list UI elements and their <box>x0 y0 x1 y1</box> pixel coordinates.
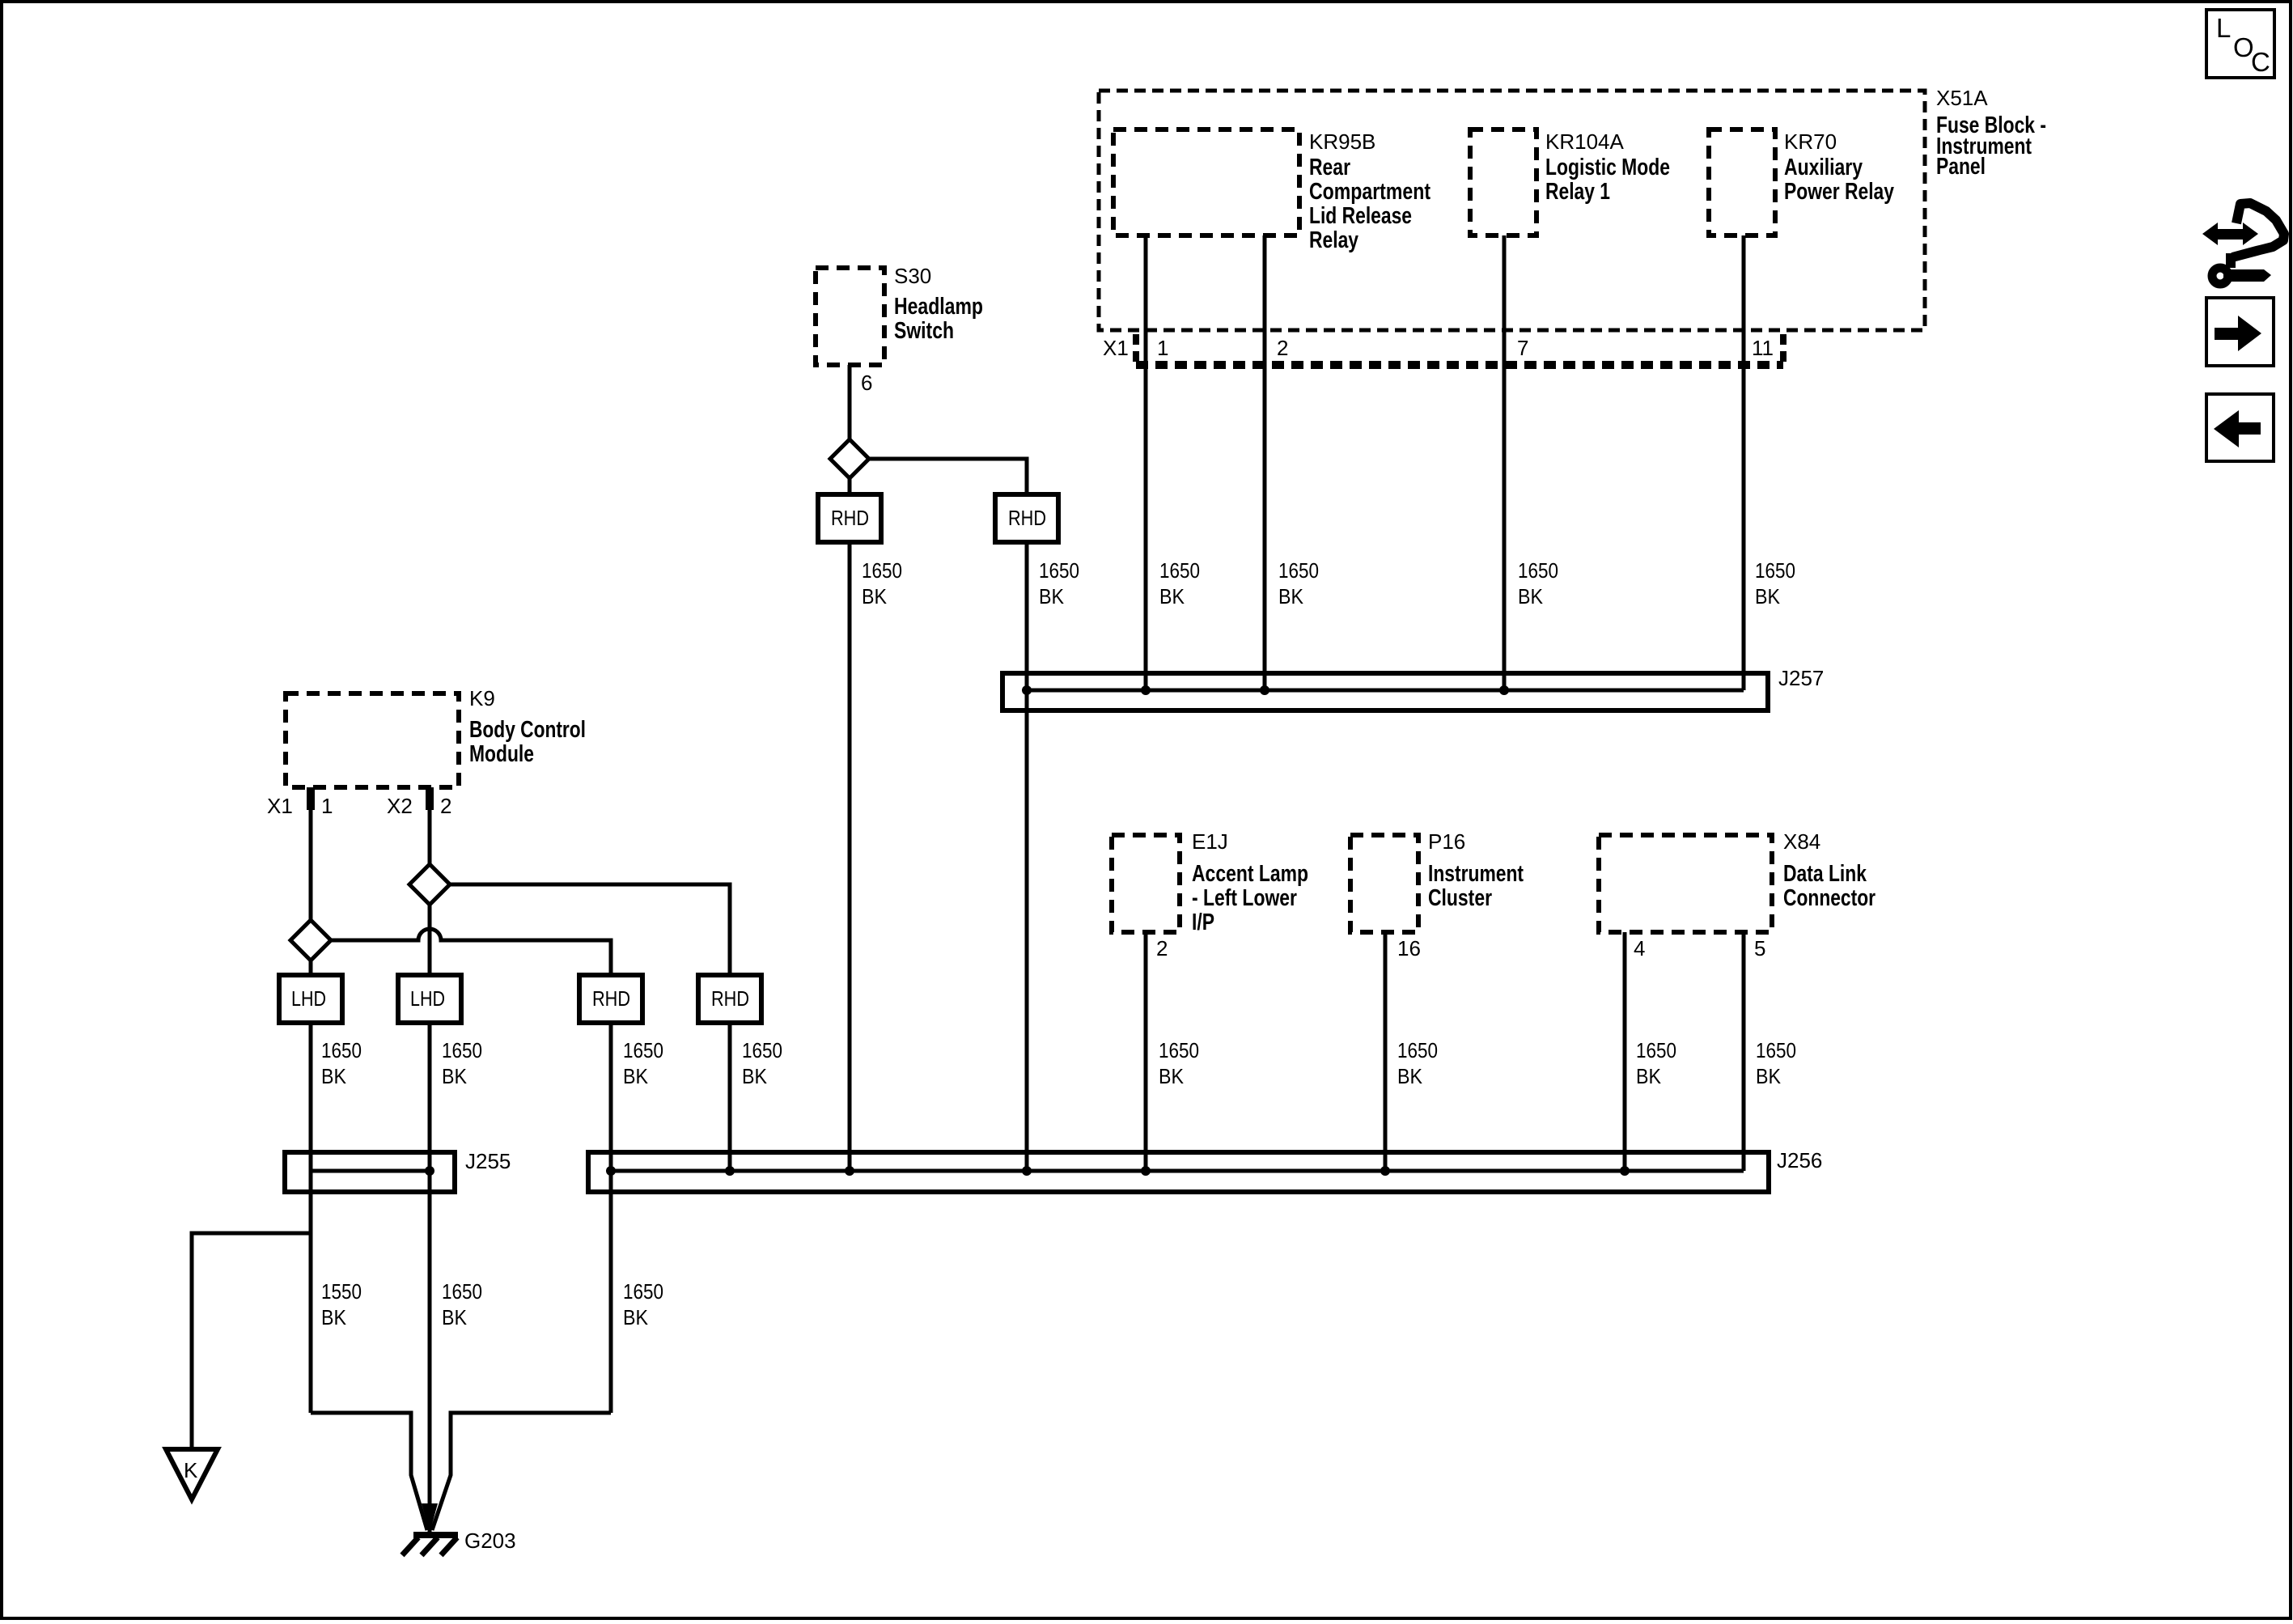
relay KR104A label <box>1545 129 1670 205</box>
wire label 1650 BK (RHD3) <box>623 1038 663 1088</box>
svg-text:J257: J257 <box>1778 666 1824 690</box>
body control module K9 dashed box <box>286 693 459 787</box>
svg-text:Compartment: Compartment <box>1309 179 1430 205</box>
wire label 1650 BK (KR95B pin1) <box>1159 558 1200 608</box>
wire label 1650 BK (E1J) <box>1159 1038 1199 1088</box>
svg-text:BK: BK <box>442 1064 468 1088</box>
svg-text:Auxiliary: Auxiliary <box>1784 155 1863 180</box>
svg-text:X2: X2 <box>387 794 413 818</box>
wire label 1650 BK (X84 pin5) <box>1756 1038 1796 1088</box>
wire label 1650 BK (X84 pin4) <box>1636 1038 1676 1088</box>
legend LOC box <box>2206 10 2274 78</box>
svg-text:1650: 1650 <box>1278 558 1319 583</box>
svg-text:1: 1 <box>1157 336 1168 360</box>
body control module K9 label <box>469 686 586 767</box>
wire KR104A pin7 to J257 <box>1503 235 1507 690</box>
splice diamond on K9 wire 1 <box>290 920 331 960</box>
svg-text:Lid Release: Lid Release <box>1309 203 1412 229</box>
svg-text:1650: 1650 <box>862 558 902 583</box>
svg-text:4: 4 <box>1634 936 1645 960</box>
data link connector X84 dashed box <box>1599 835 1772 932</box>
headlamp switch S30 label <box>894 264 983 344</box>
svg-text:Cluster: Cluster <box>1428 885 1492 911</box>
page reference K triangle <box>166 1449 218 1499</box>
svg-text:J256: J256 <box>1777 1148 1822 1172</box>
svg-text:2: 2 <box>1156 936 1168 960</box>
svg-text:BK: BK <box>742 1064 768 1088</box>
svg-text:I/P: I/P <box>1192 910 1214 935</box>
K9 pin labels X1 1 X2 2 <box>267 794 451 818</box>
wire LHD2 to J255 and down to ground tip <box>428 1021 432 1532</box>
wire label 1650 BK (RHD1) <box>862 558 902 608</box>
wire RHD1 down to J256 <box>848 541 852 1171</box>
wire KR70 pin11 to J257 <box>1742 235 1746 690</box>
svg-text:Body Control: Body Control <box>469 717 586 743</box>
back arrow box <box>2206 394 2274 461</box>
svg-text:RHD: RHD <box>592 986 630 1011</box>
relay KR104A dashed box <box>1470 129 1536 235</box>
svg-text:KR95B: KR95B <box>1309 129 1375 154</box>
svg-text:X51A: X51A <box>1936 86 1988 110</box>
wire K9 X1-1 down to splice diamond <box>309 787 313 922</box>
svg-text:1650: 1650 <box>1039 558 1079 583</box>
connector pin tick (K9 X2 pin 2) <box>426 787 434 810</box>
svg-text:X84: X84 <box>1783 829 1820 854</box>
wire K9 X2-2 down to splice diamond <box>428 787 432 866</box>
wire diamond2 to LHD2 (passes under hop) <box>428 903 432 977</box>
wire branch to K page reference <box>192 1233 311 1449</box>
svg-text:BK: BK <box>862 584 888 608</box>
svg-text:X1: X1 <box>267 794 293 818</box>
wire left elbow into ground <box>311 1413 427 1530</box>
svg-text:Connector: Connector <box>1783 885 1876 911</box>
svg-text:RHD: RHD <box>1008 506 1046 530</box>
junction dot (J256 / RHD1) <box>845 1166 854 1176</box>
junction dot (J256 / RHD3) <box>606 1166 616 1176</box>
junction dot (J255 / wire2) <box>425 1166 434 1176</box>
svg-text:Relay 1: Relay 1 <box>1545 179 1610 205</box>
fuse block X51A label <box>1936 86 2046 180</box>
svg-text:1650: 1650 <box>442 1038 482 1062</box>
svg-text:BK: BK <box>1159 1064 1185 1088</box>
wire KR95B pin2 to J257 <box>1263 235 1267 690</box>
wire label 1650 BK (KR95B pin2) <box>1278 558 1319 608</box>
svg-text:BK: BK <box>321 1064 347 1088</box>
svg-text:BK: BK <box>1039 584 1065 608</box>
forward arrow box <box>2206 298 2274 366</box>
wire label 1650 BK (P16) <box>1397 1038 1438 1088</box>
wire label 1650 BK (KR104A) <box>1518 558 1558 608</box>
option box RHD 1 <box>818 494 881 542</box>
svg-text:5: 5 <box>1754 936 1765 960</box>
svg-text:Power Relay: Power Relay <box>1784 179 1894 205</box>
connector X1 of fuse block (dashed row) <box>1136 334 1783 365</box>
svg-text:1650: 1650 <box>1636 1038 1676 1062</box>
splice pack J256 bar <box>588 1152 1769 1192</box>
wire X84 pin5 to J256 <box>1742 932 1746 1171</box>
svg-text:L: L <box>2216 13 2231 43</box>
svg-text:BK: BK <box>1159 584 1185 608</box>
wire label 1650 BK (right ground wire) <box>623 1279 663 1329</box>
svg-text:16: 16 <box>1397 936 1421 960</box>
svg-text:2: 2 <box>1277 336 1288 360</box>
svg-text:1650: 1650 <box>623 1279 663 1304</box>
svg-text:1650: 1650 <box>1159 558 1200 583</box>
svg-text:Rear: Rear <box>1309 155 1350 180</box>
junction dot (J256 / RHD2) <box>1022 1166 1032 1176</box>
wire branch diamond1 to RHD3 with hop over wire2 <box>328 929 611 977</box>
wire splice diamond to RHD box 1 <box>848 477 852 497</box>
svg-text:Module: Module <box>469 741 534 767</box>
svg-text:KR70: KR70 <box>1784 129 1837 154</box>
svg-text:P16: P16 <box>1428 829 1465 854</box>
option box LHD 1 <box>279 975 342 1023</box>
junction dot (J256 / X84 pin4) <box>1620 1166 1630 1176</box>
fuse block X51A outer dashed box <box>1099 91 1925 330</box>
relay KR70 dashed box <box>1709 129 1775 235</box>
svg-text:Logistic Mode: Logistic Mode <box>1545 155 1670 180</box>
svg-text:LHD: LHD <box>410 986 445 1011</box>
wire label 1650 BK (center ground wire) <box>442 1279 482 1329</box>
svg-text:1650: 1650 <box>1159 1038 1199 1062</box>
junction dot (J257 / KR95B pin1) <box>1141 685 1151 695</box>
svg-text:- Left Lower: - Left Lower <box>1192 885 1297 911</box>
wire diamond1 to LHD1 <box>309 959 313 977</box>
junction dot (J257 / RHD2 wire) <box>1022 685 1032 695</box>
svg-text:BK: BK <box>1636 1064 1662 1088</box>
option box RHD 3 <box>579 975 642 1023</box>
svg-text:BK: BK <box>623 1305 649 1329</box>
junction dot (J257 / KR104A) <box>1499 685 1509 695</box>
svg-text:1550: 1550 <box>321 1279 362 1304</box>
svg-text:1650: 1650 <box>1755 558 1795 583</box>
svg-text:1: 1 <box>321 794 333 818</box>
wire P16 pin16 to J256 <box>1384 932 1388 1171</box>
svg-text:1650: 1650 <box>1756 1038 1796 1062</box>
svg-text:BK: BK <box>623 1064 649 1088</box>
relay KR70 label <box>1784 129 1894 205</box>
relay KR95B dashed box <box>1113 129 1299 235</box>
svg-text:C: C <box>2251 47 2270 77</box>
wire S30 pin6 down to splice diamond <box>848 365 852 441</box>
wire LHD1 to J255 and down to K-branch and ground elbow <box>309 1021 313 1413</box>
svg-text:J255: J255 <box>465 1149 511 1173</box>
svg-text:7: 7 <box>1517 336 1528 360</box>
svg-text:BK: BK <box>321 1305 347 1329</box>
svg-text:LHD: LHD <box>291 986 326 1011</box>
svg-text:1650: 1650 <box>623 1038 663 1062</box>
splice pack J257 bar <box>1002 673 1768 710</box>
option box LHD 2 <box>398 975 461 1023</box>
option box RHD 4 <box>698 975 761 1023</box>
svg-text:BK: BK <box>1518 584 1544 608</box>
wire KR95B pin1 to J257 <box>1144 235 1148 690</box>
svg-text:2: 2 <box>440 794 451 818</box>
instrument cluster P16 label <box>1428 829 1524 911</box>
svg-text:Accent Lamp: Accent Lamp <box>1192 861 1308 887</box>
svg-text:Headlamp: Headlamp <box>894 294 983 320</box>
svg-text:1650: 1650 <box>1397 1038 1438 1062</box>
svg-text:BK: BK <box>442 1305 468 1329</box>
svg-text:1650: 1650 <box>442 1279 482 1304</box>
headlamp switch S30 dashed box <box>816 268 884 365</box>
instrument cluster P16 dashed box <box>1350 835 1418 932</box>
svg-text:X1: X1 <box>1103 336 1129 360</box>
data link connector X84 label <box>1783 829 1876 911</box>
svg-text:G203: G203 <box>464 1529 516 1553</box>
svg-text:1650: 1650 <box>742 1038 782 1062</box>
svg-text:1650: 1650 <box>321 1038 362 1062</box>
svg-text:Panel: Panel <box>1936 154 1986 180</box>
svg-text:6: 6 <box>861 371 872 395</box>
svg-text:K: K <box>184 1458 198 1482</box>
svg-text:RHD: RHD <box>831 506 869 530</box>
junction dot (J256 / E1J) <box>1141 1166 1151 1176</box>
svg-text:BK: BK <box>1397 1064 1423 1088</box>
svg-text:Instrument: Instrument <box>1428 861 1524 887</box>
wire label 1650 BK (LHD1) <box>321 1038 362 1088</box>
svg-text:11: 11 <box>1752 336 1774 360</box>
junction dot (J256 / RHD4) <box>725 1166 735 1176</box>
svg-text:Data Link: Data Link <box>1783 861 1867 887</box>
svg-text:BK: BK <box>1755 584 1781 608</box>
splice pack J255 bar <box>285 1152 455 1192</box>
relay KR95B label <box>1309 129 1430 253</box>
connector X1 pin labels <box>1103 336 1774 360</box>
option box RHD 2 <box>995 494 1058 542</box>
wire RHD4 to J256 <box>728 1021 732 1171</box>
svg-text:BK: BK <box>1756 1064 1782 1088</box>
wire RHD3 to J256 and down to ground elbow <box>609 1021 613 1413</box>
wire branch from diamond to RHD box 2 <box>867 459 1027 497</box>
wire label 1650 BK (RHD4) <box>742 1038 782 1088</box>
wire RHD2 down through J257 to J256 <box>1025 541 1029 1171</box>
wire label 1550 BK (to K) <box>321 1279 362 1329</box>
routing squiggle icon <box>2202 203 2284 284</box>
svg-text:RHD: RHD <box>711 986 749 1011</box>
connector pin tick (K9 X1 pin 1) <box>307 787 315 810</box>
junction dot (J256 / P16) <box>1380 1166 1390 1176</box>
svg-text:KR104A: KR104A <box>1545 129 1624 154</box>
svg-text:K9: K9 <box>469 686 495 710</box>
splice diamond on K9 wire 2 <box>409 864 450 905</box>
accent lamp E1J dashed box <box>1112 835 1180 932</box>
svg-text:Switch: Switch <box>894 318 954 344</box>
wire right elbow into ground <box>432 1413 611 1530</box>
svg-text:S30: S30 <box>894 264 931 288</box>
wire E1J pin2 to J256 <box>1144 932 1148 1171</box>
splice diamond (S30 branch) <box>830 439 869 478</box>
wire label 1650 BK (RHD2) <box>1039 558 1079 608</box>
accent lamp E1J label <box>1192 829 1308 935</box>
svg-text:Relay: Relay <box>1309 227 1358 253</box>
wire label 1650 BK (LHD2) <box>442 1038 482 1088</box>
svg-text:E1J: E1J <box>1192 829 1228 854</box>
wire X84 pin4 to J256 <box>1623 932 1627 1171</box>
junction dot (J257 / KR95B pin2) <box>1260 685 1269 695</box>
wire branch diamond2 to RHD4 <box>447 884 730 977</box>
ground tip arrowhead <box>422 1503 438 1533</box>
wire label 1650 BK (KR70) <box>1755 558 1795 608</box>
svg-text:BK: BK <box>1278 584 1304 608</box>
svg-text:1650: 1650 <box>1518 558 1558 583</box>
ground symbol G203 <box>402 1535 458 1555</box>
